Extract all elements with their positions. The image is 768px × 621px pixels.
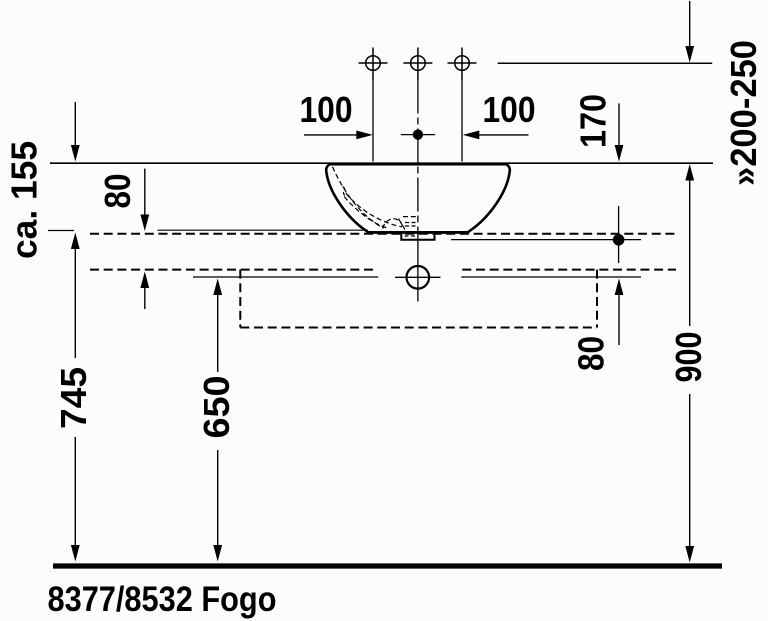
center axis line lower solid part <box>417 231 419 302</box>
svg-text:650: 650 <box>196 376 237 439</box>
inner bowl hidden contour 1 <box>333 167 384 228</box>
inner bowl squiggle <box>343 187 346 196</box>
counter bottom dashed line left part <box>90 269 375 271</box>
center reference dot <box>413 129 423 139</box>
faucet hole circle left <box>359 48 388 80</box>
bowl foot bottom line <box>368 231 468 234</box>
200-250 / 900 shared dimension line with up arrow <box>685 164 694 181</box>
washbasin bowl outline <box>326 164 510 232</box>
hidden edge solid line under counter, right part <box>461 276 641 278</box>
floor line <box>53 563 722 568</box>
faucet hole circle right <box>448 48 477 80</box>
drain hidden lines right of arch <box>403 216 418 218</box>
drain fitting hidden detail <box>405 235 418 237</box>
svg-text:900: 900 <box>668 332 709 383</box>
drain hidden small lines <box>405 222 417 224</box>
80 right dimension up arrow <box>615 279 624 296</box>
svg-text:80: 80 <box>571 336 612 371</box>
faucet hole circle middle <box>403 48 432 80</box>
650 dimension lower line with down arrow <box>217 450 219 547</box>
100 dimension line right <box>478 134 529 136</box>
left hole axis line <box>372 80 374 162</box>
counter bottom dashed line right part <box>462 269 676 271</box>
supply connection line through dot <box>451 239 641 241</box>
svg-text:100: 100 <box>300 89 353 130</box>
drain pipe circle <box>407 266 430 289</box>
80 left dimension up arrow <box>140 272 149 289</box>
drain fitting under bowl <box>401 233 434 240</box>
170 dimension arrow <box>618 103 620 146</box>
svg-text:8377/8532 Fogo: 8377/8532 Fogo <box>48 580 277 619</box>
svg-text:»200-250: »200-250 <box>723 40 764 186</box>
dashed recess rectangle bottom edge <box>240 327 597 329</box>
200-250 dimension upper arrow <box>689 1 691 47</box>
svg-text:80: 80 <box>97 174 138 209</box>
svg-text:100: 100 <box>483 89 536 130</box>
ca.155 dimension upper arrow <box>74 102 76 146</box>
inner bowl hidden contour 3 <box>344 197 386 228</box>
900 dimension lower line with down arrow <box>689 394 691 548</box>
650 dimension up arrow <box>213 279 222 296</box>
svg-text:170: 170 <box>573 94 614 148</box>
ca.155 / 745 shared line with up arrow <box>71 233 80 250</box>
top reference line (faucet outlet level) <box>498 62 713 64</box>
tick through center dot <box>401 134 435 136</box>
drain hidden diagonal <box>399 219 406 231</box>
inner bowl hidden contour 2 <box>346 193 402 227</box>
console top solid edge line left of bowl <box>158 229 369 231</box>
dashed recess rectangle right edge <box>596 270 598 328</box>
supply connection dot <box>613 234 625 246</box>
svg-text:745: 745 <box>53 367 94 429</box>
ca.155 lower extension tick <box>48 230 74 232</box>
dashed recess rectangle left edge <box>239 270 241 328</box>
hidden edge solid line under counter, left part <box>193 276 378 278</box>
745 dimension lower line with down arrow <box>74 437 76 547</box>
vertical line through supply dot <box>618 206 620 263</box>
rim level reference line <box>50 162 713 164</box>
80 left dimension down arrow <box>144 169 146 216</box>
drain circle horizontal crosshair <box>395 276 441 278</box>
right hole axis line <box>461 80 463 162</box>
drain funnel arch <box>383 219 404 229</box>
svg-text:ca. 155: ca. 155 <box>4 141 45 259</box>
100 dimension line left <box>304 134 357 136</box>
counter top dashed line <box>90 233 676 235</box>
center axis line (dash-dot) <box>417 80 419 232</box>
